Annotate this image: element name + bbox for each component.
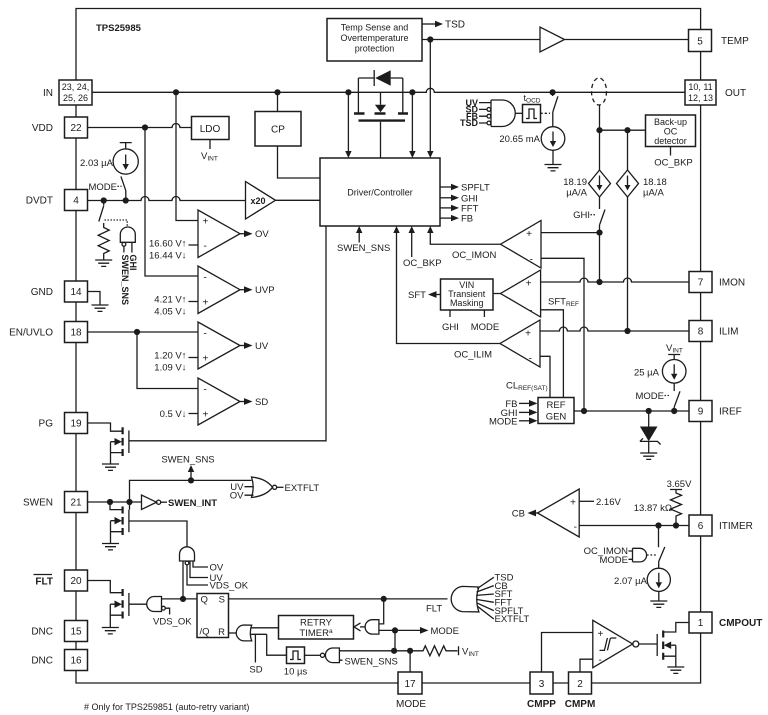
- svg-text:RETRY: RETRY: [300, 618, 333, 629]
- transistor FLT pulldown FET: [88, 581, 122, 593]
- wire Q line: [162, 598, 198, 600]
- one-shot 10us: [287, 647, 305, 664]
- ground CMPOUT FET: [667, 667, 684, 673]
- svg-text:TSD: TSD: [445, 20, 465, 31]
- block Back-up OC detector: [646, 115, 696, 147]
- svg-text:IN: IN: [43, 88, 53, 99]
- net MODE into REF GEN: [519, 420, 529, 422]
- svg-text:20.65 mA: 20.65 mA: [499, 134, 540, 145]
- wire GHI chain to IMON line: [599, 233, 601, 282]
- wire OCD gate to one-shot: [515, 112, 522, 114]
- svg-text:SWEN_SNS: SWEN_SNS: [345, 657, 398, 668]
- diode body (pass FET): [358, 70, 402, 86]
- svg-text:16: 16: [70, 656, 82, 667]
- svg-text:IREF: IREF: [719, 407, 742, 418]
- buffer U-temp: [540, 27, 565, 52]
- svg-text:IMON: IMON: [719, 278, 745, 289]
- node rail-CP: [274, 89, 280, 95]
- current source 2.07uA: [658, 562, 660, 569]
- pin DNC 15: [65, 621, 88, 642]
- node rail-IN branch: [173, 89, 179, 95]
- svg-text:CMPM: CMPM: [565, 699, 596, 710]
- wire ILIM line: [540, 327, 689, 331]
- svg-text:MODE: MODE: [636, 391, 665, 402]
- transistor PG pulldown FET: [88, 423, 122, 431]
- svg-text:LDO: LDO: [200, 124, 221, 135]
- wire FB out: [440, 217, 451, 219]
- wire OC_IMON+: [541, 232, 600, 234]
- net OC_BKP stub: [670, 147, 672, 156]
- svg-text:SFT: SFT: [408, 290, 426, 301]
- svg-text:/Q: /Q: [200, 627, 210, 638]
- wire SFT out: [437, 294, 441, 296]
- net FB into REF GEN: [519, 402, 529, 404]
- wire S line: [229, 598, 448, 600]
- svg-text:SD: SD: [255, 397, 268, 408]
- pin OUT (10,11,12,13): [685, 80, 716, 105]
- switch DVDT branch: [99, 201, 104, 222]
- wire temp to buffer: [422, 39, 540, 41]
- svg-text:TPS25985: TPS25985: [96, 23, 142, 34]
- svg-text:+: +: [203, 354, 209, 365]
- svg-text:MODE: MODE: [471, 322, 500, 333]
- switch OCD: [553, 92, 558, 112]
- node rail-FET source: [409, 89, 415, 95]
- current source diamond 18.18 uA/A: [627, 130, 629, 170]
- svg-text:2.03 µA: 2.03 µA: [80, 158, 114, 169]
- comparator SD: [198, 378, 240, 425]
- node SWEN-gate: [126, 499, 132, 505]
- wire CB out: [536, 512, 538, 514]
- svg-text:OC_BKP: OC_BKP: [654, 158, 693, 169]
- wire SWEN pin: [88, 501, 142, 503]
- resistor MODE pullup: [410, 646, 458, 656]
- gate R OR: [236, 625, 251, 641]
- svg-text:SPFLT: SPFLT: [461, 183, 490, 194]
- svg-text:+: +: [526, 279, 532, 290]
- wire diode left leg: [357, 78, 359, 113]
- svg-text:EXTFLT: EXTFLT: [495, 614, 530, 625]
- wire diode right leg: [402, 78, 404, 113]
- svg-text:21: 21: [70, 498, 82, 509]
- node pin17 branch: [407, 648, 413, 654]
- pin DVDT 4: [65, 190, 88, 211]
- wire rail to driver left arrow: [347, 92, 349, 151]
- svg-text:detector: detector: [654, 136, 687, 146]
- wire pin17 to SNS line: [409, 651, 411, 672]
- svg-text:FLT: FLT: [35, 577, 53, 588]
- wire dashed switch control: [105, 220, 128, 227]
- current source 2.03uA with VINT bar: [120, 143, 132, 150]
- svg-text:1: 1: [698, 618, 704, 629]
- transistor pass FET: [354, 112, 408, 114]
- wire TSD sense vertical to driver: [429, 40, 431, 152]
- node ITIMER-switch: [655, 522, 661, 528]
- wire OC_IMON out to driver: [430, 233, 500, 244]
- svg-text:VDS_OK: VDS_OK: [210, 581, 249, 592]
- svg-text:15: 15: [70, 627, 82, 638]
- gate OV/UV/VDS_OK AND (down): [180, 547, 195, 561]
- svg-text:+: +: [203, 298, 209, 309]
- svg-text:+: +: [570, 498, 576, 509]
- net SD into R gate: [254, 634, 256, 662]
- wire CP to rail: [277, 92, 279, 111]
- pin CMPOUT 1: [689, 612, 712, 633]
- latch SR: [197, 594, 229, 638]
- current source 20.65 mA: [552, 112, 554, 127]
- svg-text:GND: GND: [31, 287, 53, 298]
- svg-text:MODE: MODE: [431, 626, 460, 637]
- svg-text:23, 24,: 23, 24,: [62, 82, 90, 92]
- comparator CB: [538, 489, 580, 537]
- diode zener IREF: [648, 411, 650, 427]
- switch GHI (diamond1): [600, 197, 606, 233]
- svg-text:4.05 V↓: 4.05 V↓: [154, 307, 186, 318]
- wire CB+ to 2.16V: [579, 500, 594, 502]
- ground 2.07uA: [650, 591, 667, 607]
- wire IREF line: [574, 410, 689, 412]
- node rail-OCD switch: [550, 89, 556, 95]
- pin IREF 9: [689, 401, 712, 422]
- svg-text:+: +: [203, 217, 209, 228]
- wire VDD to LDO: [88, 124, 192, 128]
- svg-text:CMPP: CMPP: [527, 699, 556, 710]
- gate GHI/SWEN_SNS AND: [120, 227, 135, 242]
- wire gate out to Q node: [182, 561, 184, 599]
- svg-text:-: -: [529, 354, 532, 365]
- wire EN/UVLO: [88, 331, 199, 333]
- wire SWEN_SNS branch: [130, 480, 252, 502]
- svg-text:SWEN_INT: SWEN_INT: [168, 498, 217, 509]
- svg-text:SWEN_SNS: SWEN_SNS: [161, 455, 214, 466]
- wire CP to driver: [278, 146, 321, 178]
- svg-text:10, 11: 10, 11: [688, 82, 712, 92]
- pin MODE 17: [398, 672, 422, 694]
- svg-text:Driver/Controller: Driver/Controller: [347, 188, 413, 198]
- net SFTREF to REF GEN: [541, 310, 564, 398]
- net CLREF(SAT) to REF GEN: [540, 356, 550, 397]
- svg-text:OV: OV: [210, 563, 224, 574]
- svg-text:protection: protection: [355, 44, 395, 54]
- svg-text:FLT: FLT: [426, 604, 442, 615]
- ground FLT FET: [102, 628, 119, 634]
- ground DVDT resistor: [95, 260, 112, 266]
- comparator CMP (schmitt): [593, 620, 633, 667]
- svg-text:+: +: [598, 629, 604, 640]
- node IMON junction: [596, 279, 602, 285]
- svg-text:OV: OV: [230, 491, 244, 502]
- current source diamond 18.19 uA/A: [599, 130, 601, 170]
- svg-text:18.18: 18.18: [643, 177, 667, 188]
- node S-retry branch: [381, 596, 387, 602]
- wire ITIMER line: [579, 525, 689, 527]
- node MODE-SNS: [391, 648, 397, 654]
- wire MODE branch down: [394, 630, 396, 650]
- svg-text:6: 6: [698, 521, 704, 532]
- svg-text:DVDT: DVDT: [26, 196, 53, 207]
- svg-text:16.60 V↑: 16.60 V↑: [149, 239, 187, 250]
- svg-text:MODE: MODE: [89, 182, 118, 193]
- svg-text:OC: OC: [664, 127, 678, 137]
- svg-text:S: S: [219, 595, 225, 606]
- pin IN (23,24,25,26): [59, 80, 92, 105]
- switch ITIMER: [659, 526, 665, 562]
- node MODE branch: [392, 627, 398, 633]
- node SWEN-drain: [107, 499, 113, 505]
- svg-text:# Only for TPS259851 (auto-ret: # Only for TPS259851 (auto-retry variant…: [84, 702, 249, 712]
- svg-text:+: +: [203, 410, 209, 421]
- svg-text:12, 13: 12, 13: [688, 93, 713, 103]
- svg-text:DNC: DNC: [31, 656, 53, 667]
- svg-text:OC_BKP: OC_BKP: [403, 258, 442, 269]
- net UV input: [190, 561, 208, 578]
- block RETRY TIMER: [279, 616, 354, 640]
- block Temp Sense and Overtemperature protection: [327, 19, 422, 62]
- svg-text:-: -: [204, 241, 207, 252]
- svg-text:REF: REF: [547, 400, 566, 411]
- net GHI into REF GEN: [519, 411, 529, 413]
- node SNS arrow: [188, 477, 194, 483]
- svg-text:GHI: GHI: [442, 322, 459, 333]
- pin SWEN 21: [65, 492, 88, 513]
- sense point dashed circle: [592, 78, 607, 105]
- node EN branch: [134, 329, 140, 335]
- svg-text:Back-up: Back-up: [654, 117, 687, 127]
- node ILIM junction: [624, 328, 630, 334]
- wire MODE line: [379, 629, 420, 631]
- svg-text:OC_ILIM: OC_ILIM: [454, 350, 492, 361]
- svg-text:-: -: [204, 329, 207, 340]
- ground SWEN FET: [102, 544, 119, 550]
- wire OC_ILIM out to driver: [397, 233, 501, 344]
- svg-text:-: -: [530, 255, 533, 266]
- pin CMPM 2: [569, 672, 592, 694]
- svg-text:4: 4: [73, 196, 79, 207]
- svg-text:TIMERa: TIMERa: [299, 628, 333, 639]
- wire VDD sense to UVP-: [145, 128, 198, 277]
- node TSD branch: [427, 36, 433, 42]
- pin ILIM 8: [689, 321, 712, 342]
- svg-text:9: 9: [698, 407, 704, 418]
- ground OCD source: [545, 150, 562, 171]
- svg-text:0.5 V↓: 0.5 V↓: [160, 409, 187, 420]
- chip boundary box: [76, 9, 701, 684]
- svg-text:EXTFLT: EXTFLT: [285, 483, 320, 494]
- node DVDT-resistor branch: [101, 197, 107, 203]
- svg-text:25, 26: 25, 26: [63, 93, 88, 103]
- svg-text:UVP: UVP: [255, 285, 275, 296]
- wire FFT out: [440, 207, 451, 209]
- svg-text:Masking: Masking: [450, 298, 484, 308]
- wire sense to backup tap: [599, 105, 601, 131]
- gate VDS_OK OR (FLT drive): [147, 597, 162, 612]
- svg-text:µA/A: µA/A: [643, 188, 664, 199]
- wire CMPM to comparator: [580, 659, 593, 672]
- gate RETRY AND: [365, 620, 379, 634]
- pin ITIMER 6: [689, 515, 712, 536]
- block Driver/Controller: [320, 158, 440, 226]
- wire CMP out to FET gate: [639, 643, 657, 645]
- pin EN/UVLO 18: [65, 322, 88, 343]
- svg-text:DNC: DNC: [31, 627, 53, 638]
- net MODE stub (masking): [483, 310, 485, 317]
- wire S branch to retry gate: [379, 599, 384, 624]
- wire oneshot to R gate: [267, 634, 287, 655]
- wire buffer to TEMP pin: [565, 39, 689, 41]
- svg-text:GHI: GHI: [573, 210, 590, 221]
- transistor SWEN pulldown FET: [110, 502, 122, 510]
- wire GHI out: [440, 197, 451, 199]
- svg-text:MODE: MODE: [489, 416, 518, 427]
- wire dashed ITIMER switch control: [647, 554, 657, 556]
- svg-text:OUT: OUT: [725, 88, 746, 99]
- node IREF-CL: [581, 408, 587, 414]
- inverter SWEN_INT: [142, 495, 157, 510]
- svg-text:2.07 µA: 2.07 µA: [614, 576, 648, 587]
- block REF GEN: [538, 398, 574, 424]
- svg-text:4.21 V↑: 4.21 V↑: [154, 295, 186, 306]
- comparator OV: [198, 210, 240, 258]
- wire EN to SD-: [137, 332, 198, 389]
- svg-text:2.16V: 2.16V: [596, 497, 621, 508]
- svg-text:19: 19: [70, 419, 82, 430]
- node DVDT-source branch: [123, 197, 129, 203]
- pin TEMP 5: [689, 30, 712, 52]
- net OC_BKP into driver: [411, 233, 413, 257]
- wire pass FET gate to driver: [380, 122, 382, 158]
- wire IMON line: [541, 278, 689, 282]
- pin GND 14: [65, 281, 88, 302]
- svg-text:GEN: GEN: [546, 412, 567, 423]
- svg-text:CP: CP: [271, 125, 285, 136]
- pin DNC 16: [65, 650, 88, 671]
- svg-text:-: -: [529, 306, 532, 317]
- node VDD branch: [142, 124, 148, 130]
- comparator OC_IMON: [501, 221, 542, 269]
- svg-text:TEMP: TEMP: [721, 36, 749, 47]
- wire CMPP to comparator: [542, 633, 593, 673]
- net OV input: [193, 561, 208, 567]
- svg-text:1.09 V↓: 1.09 V↓: [154, 363, 186, 374]
- net SWEN_SNS up arrow: [190, 472, 192, 480]
- svg-text:10 µs: 10 µs: [284, 667, 308, 678]
- svg-text:SWEN: SWEN: [23, 498, 53, 509]
- ground zener: [640, 453, 657, 459]
- wire retry gate out (open arrow): [360, 626, 365, 628]
- net VINT under LDO: [209, 140, 211, 150]
- wire IN-OUT rail: [92, 88, 685, 92]
- svg-text:CB: CB: [512, 509, 525, 520]
- svg-text:+: +: [526, 229, 532, 240]
- svg-text:+: +: [525, 329, 531, 340]
- wire FLT gate to OR: [129, 603, 147, 605]
- wire SPFLT out: [440, 186, 451, 188]
- block LDO: [192, 117, 230, 140]
- svg-text:MODE: MODE: [396, 699, 426, 710]
- node IREF-zener: [646, 408, 652, 414]
- switch MODE (25uA): [674, 383, 680, 411]
- comparator UV: [198, 322, 240, 369]
- gate FLT OR 6-input: [451, 586, 479, 612]
- svg-text:x20: x20: [251, 196, 266, 206]
- svg-text:-: -: [599, 655, 602, 666]
- wire comp to masking box: [493, 293, 501, 295]
- node IREF-25uA: [671, 408, 677, 414]
- svg-text:PG: PG: [39, 419, 54, 430]
- amp x20: [246, 182, 276, 220]
- svg-text:3.65V: 3.65V: [667, 479, 692, 490]
- svg-text:18.19: 18.19: [563, 177, 587, 188]
- svg-text:7: 7: [698, 278, 704, 289]
- svg-text:Temp Sense and: Temp Sense and: [341, 23, 409, 33]
- transistor CMPOUT FET: [656, 634, 658, 656]
- one-shot tOCD: [523, 105, 541, 123]
- node GHI switch to +: [596, 230, 602, 236]
- svg-text:14: 14: [70, 287, 82, 298]
- wire PG gate to driver: [129, 226, 326, 441]
- svg-text:SWEN_SNS: SWEN_SNS: [337, 243, 390, 254]
- svg-text:16.44 V↓: 16.44 V↓: [149, 251, 187, 262]
- svg-text:UV: UV: [255, 341, 269, 352]
- svg-text:OV: OV: [255, 229, 269, 240]
- svg-text:22: 22: [70, 123, 82, 134]
- wire dashed OCD control: [541, 112, 551, 114]
- svg-text:GHI: GHI: [128, 255, 138, 271]
- svg-text:13.87 kΩ: 13.87 kΩ: [634, 503, 672, 514]
- node Q-gate: [180, 596, 186, 602]
- svg-text:EN/UVLO: EN/UVLO: [9, 328, 53, 339]
- pin PG 19: [65, 413, 88, 434]
- wire tap to backup box: [600, 129, 646, 131]
- svg-text:-: -: [204, 273, 207, 284]
- svg-text:Q: Q: [201, 595, 208, 606]
- block VIN Transient Masking: [441, 279, 494, 310]
- wire rail to driver right arrow: [411, 92, 413, 151]
- svg-text:ITIMER: ITIMER: [719, 521, 753, 532]
- pin VDD 22: [65, 117, 88, 138]
- svg-text:18: 18: [70, 328, 82, 339]
- block CP: [255, 112, 301, 147]
- svg-text:3: 3: [539, 679, 545, 690]
- pin FLT 20 (overline): [65, 570, 88, 591]
- net VDS_OK input: [187, 565, 208, 585]
- wire SWEN FET gate to latch gate: [129, 521, 187, 547]
- switch MODE (2.03uA): [121, 176, 126, 200]
- svg-text:TSD: TSD: [460, 118, 479, 128]
- svg-text:SD: SD: [249, 665, 262, 676]
- svg-text:FB: FB: [461, 214, 473, 225]
- svg-text:VDS_OK: VDS_OK: [153, 617, 192, 628]
- node ITIMER-resistor: [673, 522, 679, 528]
- svg-text:VDD: VDD: [32, 123, 53, 134]
- svg-text:µA/A: µA/A: [566, 188, 587, 199]
- svg-text:20: 20: [70, 576, 82, 587]
- svg-text:ILIM: ILIM: [719, 327, 738, 338]
- pin CMPP 3: [530, 672, 553, 694]
- resistor DVDT: [98, 223, 109, 260]
- svg-text:OC_IMON: OC_IMON: [452, 250, 496, 261]
- comparator UVP: [198, 266, 240, 314]
- net SWEN_SNS into driver: [358, 233, 360, 243]
- wire IN sense to OV+: [176, 92, 198, 220]
- ground PG FET: [102, 464, 119, 470]
- node backup tap: [596, 127, 602, 133]
- svg-text:-: -: [574, 522, 577, 533]
- svg-text:2: 2: [577, 679, 583, 690]
- svg-text:5: 5: [697, 37, 703, 48]
- svg-text:R: R: [218, 627, 225, 638]
- pin IMON 7: [689, 272, 712, 293]
